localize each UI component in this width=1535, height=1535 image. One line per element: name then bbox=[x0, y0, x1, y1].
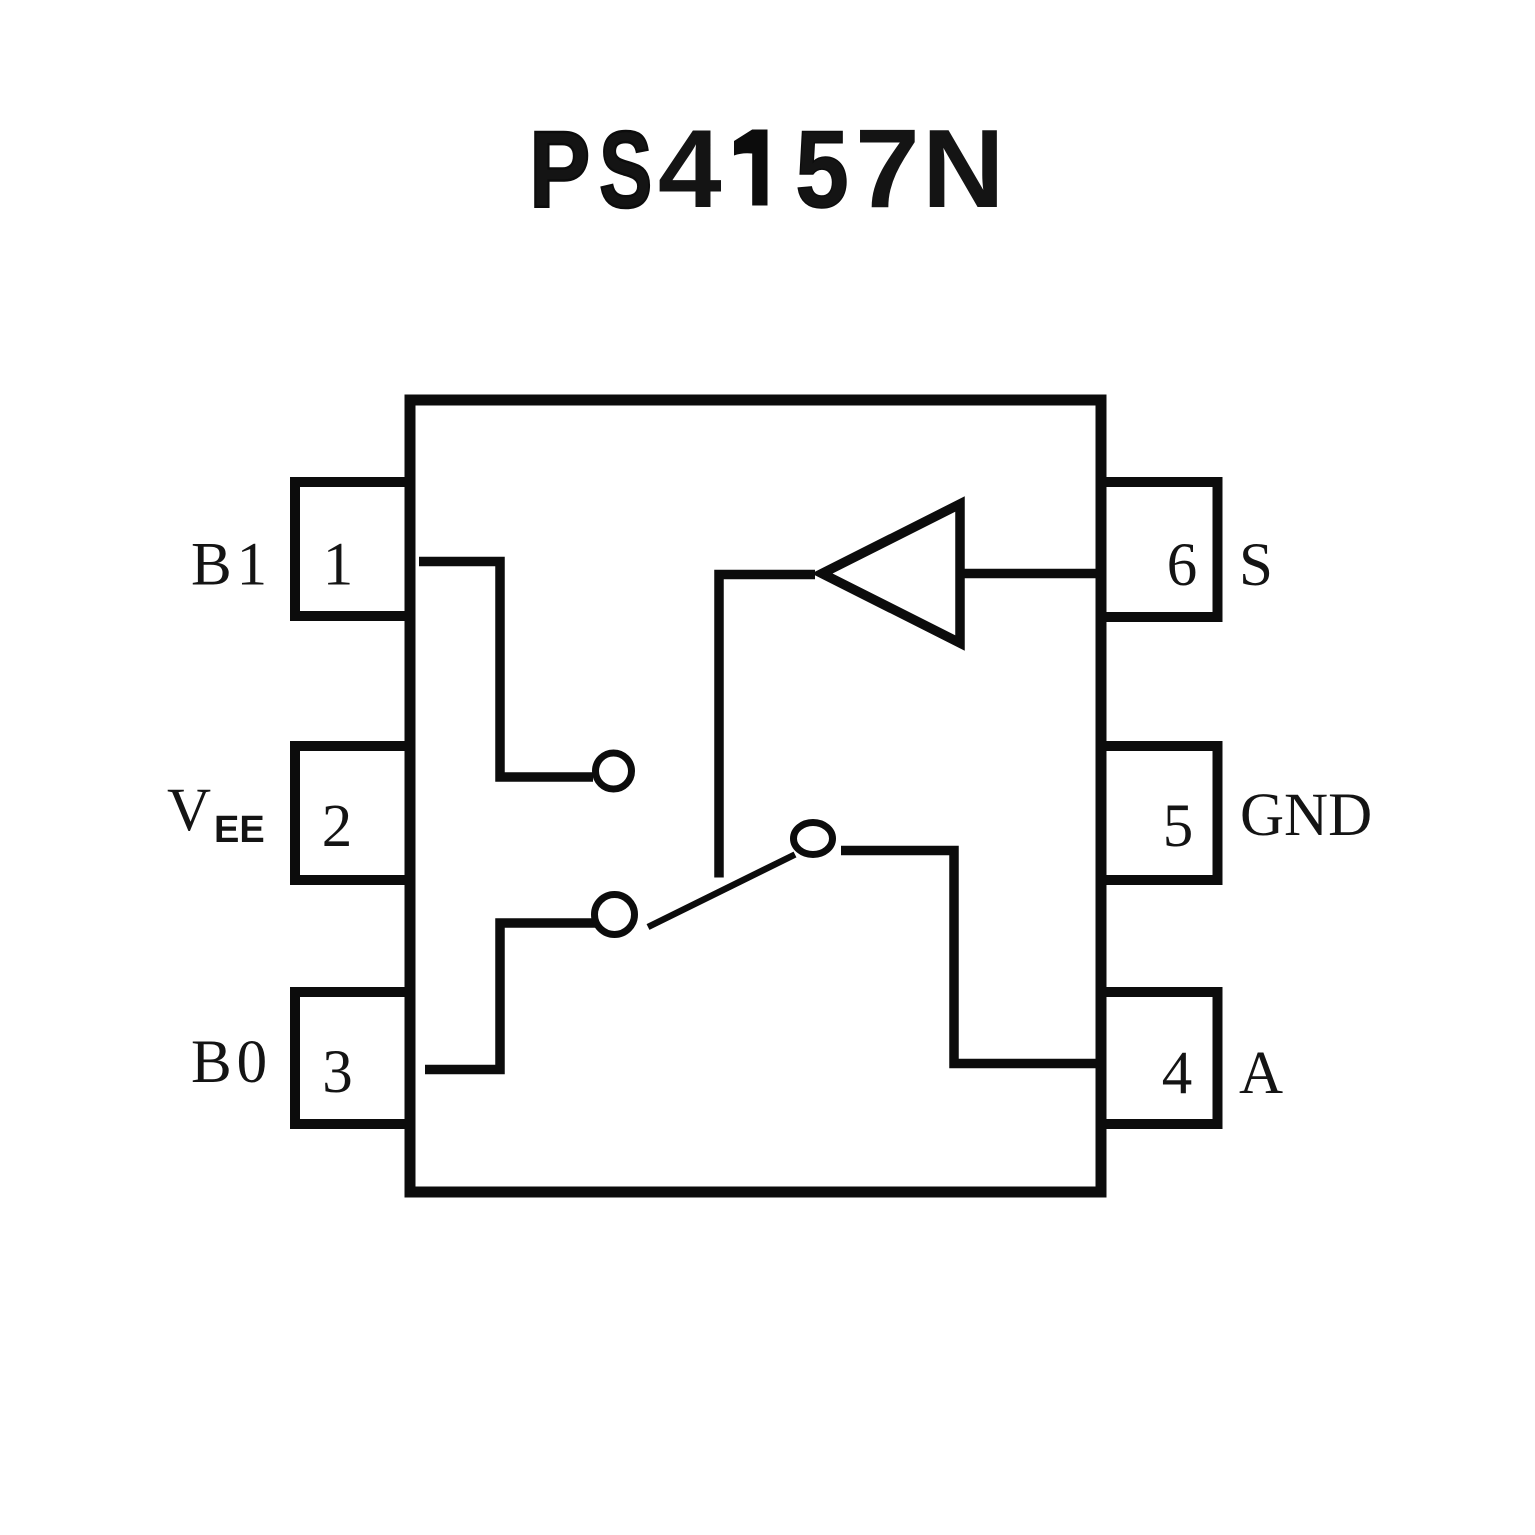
svg-text:3: 3 bbox=[322, 1039, 353, 1106]
pin 4 box bbox=[1101, 992, 1218, 1124]
svg-text:1: 1 bbox=[323, 532, 354, 599]
wire buffer input down to pole bbox=[719, 575, 815, 878]
svg-text:S: S bbox=[1239, 532, 1273, 599]
svg-text:B1: B1 bbox=[191, 532, 272, 599]
svg-text:N: N bbox=[922, 106, 1004, 231]
pin 6 box bbox=[1101, 482, 1218, 617]
pin 5 box bbox=[1101, 746, 1218, 880]
svg-text:5: 5 bbox=[1163, 793, 1194, 860]
svg-text:A: A bbox=[1239, 1040, 1283, 1107]
svg-text:6: 6 bbox=[1167, 532, 1198, 599]
svg-text:EE: EE bbox=[214, 809, 265, 851]
wire pole to pin4 bbox=[841, 851, 1097, 1064]
buffer triangle U2 bbox=[822, 504, 960, 643]
svg-text:7: 7 bbox=[855, 107, 920, 231]
svg-text:GND: GND bbox=[1240, 782, 1372, 849]
switch pole circle bbox=[794, 823, 833, 855]
wire pin1 to throw contact B1 bbox=[419, 562, 593, 778]
svg-text:S: S bbox=[599, 110, 652, 231]
IC body U1 bbox=[410, 400, 1101, 1192]
throw contact circle B1 bbox=[596, 753, 632, 789]
svg-text:4: 4 bbox=[658, 105, 722, 230]
pin 2 box bbox=[295, 746, 410, 880]
svg-text:P: P bbox=[529, 110, 590, 231]
svg-text:4: 4 bbox=[1162, 1041, 1193, 1108]
throw contact circle B0 bbox=[595, 895, 635, 935]
pin 1 box bbox=[295, 482, 410, 616]
title PS4157N bbox=[529, 105, 1004, 231]
svg-text:2: 2 bbox=[322, 793, 353, 860]
wire buffer output to pin6 bbox=[963, 569, 1097, 579]
pin 3 box bbox=[295, 992, 410, 1124]
svg-text:B0: B0 bbox=[191, 1029, 272, 1096]
svg-text:V: V bbox=[167, 777, 211, 844]
switch lever bbox=[648, 855, 795, 928]
wire pin3 to throw contact B0 bbox=[425, 923, 597, 1070]
svg-text:5: 5 bbox=[795, 108, 848, 230]
